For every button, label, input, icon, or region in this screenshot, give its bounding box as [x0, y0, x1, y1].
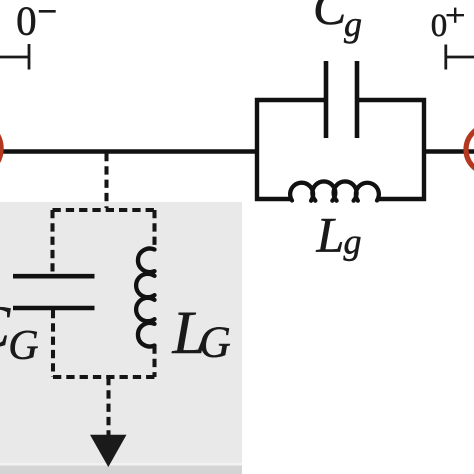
port node left (red ring) [0, 122, 1, 176]
ground arrow [90, 435, 127, 467]
capacitor Cg left plate [324, 61, 329, 138]
svg-text:0: 0 [16, 0, 36, 44]
wire main right [424, 149, 474, 153]
svg-text:G: G [8, 323, 38, 369]
dashed wire ground stem [106, 377, 110, 436]
svg-text:g: g [344, 4, 362, 44]
dashed wire left upper [50, 210, 54, 274]
svg-text:C: C [313, 0, 347, 35]
svg-text:0: 0 [431, 8, 448, 44]
dashed wire bottom edge [53, 375, 155, 379]
dashed wire top edge [53, 208, 156, 212]
gray inset panel [0, 202, 242, 463]
inductor Lg [290, 181, 379, 200]
svg-text:L: L [316, 207, 345, 263]
capacitor Cg right plate [355, 61, 360, 138]
tick marker 0+ [446, 56, 474, 59]
dashed wire right upper [152, 210, 156, 250]
svg-text:g: g [344, 222, 362, 262]
superscript minus of 0- [39, 10, 56, 13]
port node right (red ring) [466, 126, 474, 174]
tick marker 0- [0, 56, 29, 59]
gray panel divider line [0, 463, 242, 466]
dashed wire right lower [152, 346, 156, 378]
wire main left [0, 149, 257, 153]
gray bottom strip [0, 466, 242, 474]
capacitor CG bottom plate [13, 306, 95, 311]
dashed wire junction from main wire [104, 153, 108, 208]
svg-text:G: G [199, 317, 231, 366]
superscript plus of 0+ [447, 14, 465, 16]
LC tank box wire [257, 100, 424, 199]
dashed wire left lower [51, 310, 55, 377]
capacitor CG top plate [13, 274, 95, 279]
inductor LG [136, 248, 154, 346]
